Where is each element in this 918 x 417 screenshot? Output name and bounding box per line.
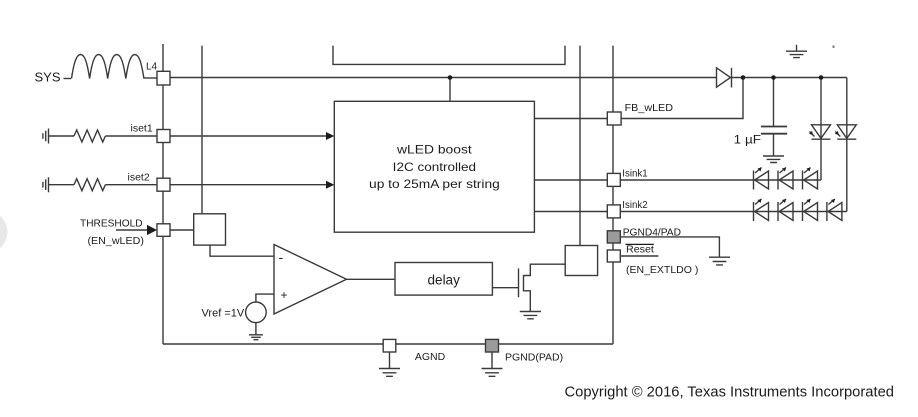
wire iset1 left — [49, 135, 75, 137]
arrow THRESHOLD — [147, 225, 157, 235]
arrow iset2 into box — [326, 181, 334, 189]
wire Q1 source down — [524, 291, 531, 312]
wire diode cathode to right corner — [732, 77, 847, 79]
svg-text:1 µF: 1 µF — [734, 135, 761, 147]
pin square Isink2 — [607, 205, 620, 218]
svg-text:wLED boost: wLED boost — [396, 143, 473, 157]
ground PGND4 — [709, 257, 730, 265]
wire LED string1 vertical — [820, 78, 822, 181]
svg-text:SYS: SYS — [35, 70, 61, 85]
wire THRESHOLD lead — [116, 229, 148, 231]
diode D1 — [717, 68, 732, 88]
op-amp U1 — [274, 245, 347, 315]
ground cap — [763, 156, 784, 163]
wire bus3 vertical — [579, 46, 581, 246]
wire Reset stub — [620, 255, 658, 257]
pin square Reset — [607, 250, 620, 262]
block2 (sense block) — [565, 246, 597, 276]
Vref source V1 — [246, 302, 267, 323]
wire Isink1 to pin — [534, 179, 607, 181]
ground floating top right — [786, 45, 807, 58]
svg-text:Isink2: Isink2 — [622, 199, 647, 211]
wire top U outline — [333, 46, 565, 65]
svg-text:Copyright © 2016, Texas Instru: Copyright © 2016, Texas Instruments Inco… — [565, 384, 895, 401]
arrow iset1 into box — [326, 132, 334, 140]
LED Dv1 vertical — [810, 125, 831, 139]
wire THRESHOLD pin to block — [170, 229, 194, 231]
node LED1 junction dot — [819, 75, 824, 80]
svg-text:FB_wLED: FB_wLED — [625, 102, 674, 114]
wire iset2 to pin — [105, 184, 157, 186]
wire Isink1 row — [621, 179, 822, 181]
wire FB net up to diode cathode node — [621, 78, 743, 119]
LED row2 (Isink2 string) — [754, 199, 842, 221]
wire delay to MOSFET gate — [492, 287, 518, 289]
svg-text:up to 25mA per string: up to 25mA per string — [369, 177, 500, 191]
wire SYS line to diode — [170, 77, 717, 79]
wire cap bottom — [773, 134, 775, 156]
wire PGND4 net to ground — [620, 237, 719, 257]
ground PGND(PAD) — [482, 352, 503, 376]
wire bus1 vertical — [162, 44, 164, 344]
transistor Q1 gate bar — [518, 268, 520, 297]
wire bus4 vertical — [612, 46, 614, 344]
LED D7 — [803, 202, 818, 221]
pin square PGND(PAD) grey — [486, 339, 499, 352]
svg-text:L4: L4 — [146, 62, 158, 73]
watermark arc (left edge) — [0, 211, 8, 254]
wire block1 to op-amp minus — [210, 245, 274, 256]
wire bottom rail — [163, 343, 613, 345]
svg-text:delay: delay — [428, 273, 461, 288]
inductor L4 — [72, 55, 144, 79]
resistor iset1 — [74, 130, 105, 142]
ground Vref — [249, 323, 263, 340]
pin square PGND4/PAD (grey) — [607, 231, 620, 243]
wLED boost block — [334, 101, 534, 232]
wire iset2 pin to boost box — [170, 184, 326, 186]
LED D2 — [754, 171, 769, 190]
wire node SW down to boost box — [449, 78, 451, 102]
transistor Q1 channel bar — [523, 275, 525, 292]
pin square AGND — [383, 339, 396, 352]
pin square iset1 — [157, 130, 170, 143]
wire Isink2 row — [621, 211, 847, 213]
LED row1 (Isink1 string) — [754, 168, 818, 190]
LED D8 — [827, 202, 842, 221]
svg-text:PGND(PAD): PGND(PAD) — [505, 352, 563, 364]
svg-text:iset2: iset2 — [128, 172, 150, 184]
ground iset1 — [43, 129, 49, 144]
pin square L4 — [157, 71, 170, 85]
wire iset1 pin to boost box — [170, 135, 326, 137]
svg-text:Reset: Reset — [626, 243, 654, 255]
ground Q1 source — [520, 312, 541, 319]
pin square iset2 — [157, 178, 170, 191]
svg-text:THRESHOLD: THRESHOLD — [80, 217, 143, 229]
wire iset1 to pin — [105, 135, 157, 137]
svg-text:-: - — [279, 249, 284, 265]
svg-text:iset1: iset1 — [131, 123, 153, 135]
ground iset2 — [43, 177, 49, 192]
wire LED string2 vertical — [846, 78, 848, 212]
svg-text:+: + — [281, 288, 288, 302]
svg-text:(EN_EXTLDO ): (EN_EXTLDO ) — [626, 264, 698, 276]
svg-text:I2C controlled: I2C controlled — [393, 160, 476, 174]
wire iset2 left — [49, 184, 75, 186]
wire Isink2 to pin — [534, 211, 607, 213]
svg-text:(EN_wLED): (EN_wLED) — [88, 235, 144, 247]
pin square FB_wLED — [607, 112, 621, 125]
wire op-amp plus to Vref — [256, 294, 274, 302]
LED D3 — [778, 171, 793, 190]
LED D6 — [778, 202, 793, 221]
svg-text:PGND4/PAD: PGND4/PAD — [623, 227, 682, 239]
delay block — [395, 263, 492, 296]
wire FB_wLED to pin — [534, 118, 607, 120]
LED D5 — [754, 202, 769, 221]
node FB junction dot — [741, 75, 746, 80]
wire cap top — [773, 78, 775, 127]
svg-text:Isink1: Isink1 — [622, 168, 647, 180]
LED Dv2 vertical — [835, 125, 856, 139]
ground AGND — [379, 352, 400, 376]
pin square Isink1 — [607, 173, 620, 186]
wire SYS lead — [64, 78, 72, 80]
capacitor C1 plates — [761, 127, 787, 134]
wire bus2 vertical — [201, 46, 203, 214]
LED D4 — [803, 171, 818, 190]
resistor iset2 — [74, 179, 105, 191]
wire op-amp out to delay — [347, 278, 396, 280]
node cap junction dot — [771, 75, 776, 80]
pin square THRESHOLD — [157, 224, 170, 237]
block1 (threshold logic) — [194, 214, 226, 245]
svg-text:AGND: AGND — [415, 351, 446, 363]
small mark top right — [833, 46, 835, 48]
wire Q1 drain to block2 — [524, 264, 566, 275]
node SW junction dot — [448, 75, 453, 80]
wire inductor to pin — [144, 77, 158, 79]
svg-text:Vref =1V: Vref =1V — [202, 308, 245, 320]
